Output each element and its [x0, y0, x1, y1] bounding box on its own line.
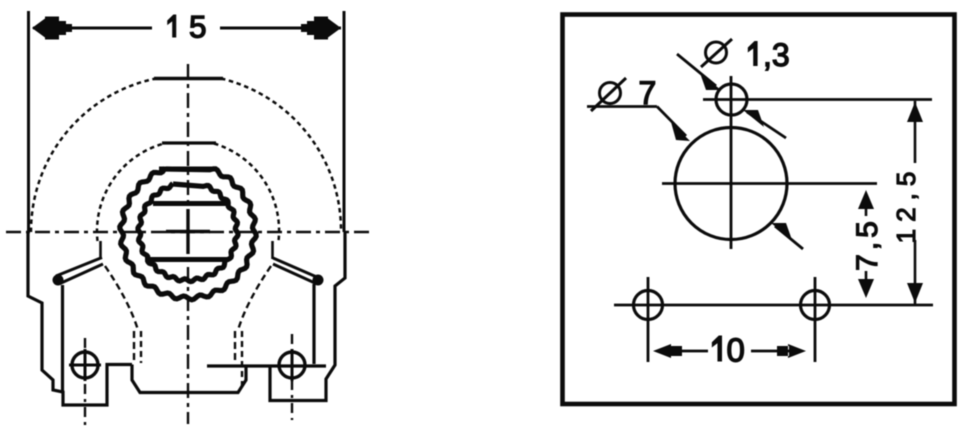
right pin cross vertical [291, 349, 294, 381]
body semicircle dashed left part [31, 79, 156, 233]
dimension text 15 [167, 15, 176, 38]
left ear lower edge [60, 264, 103, 284]
left leg inner contour [133, 331, 135, 363]
left pin cross vertical [84, 349, 87, 381]
dimension line 15 right segment [220, 27, 341, 30]
svg-text:0: 0 [727, 332, 745, 369]
leader dia 7 diagonal [657, 107, 686, 137]
right ear stub [271, 241, 274, 259]
dimension 10 line left [660, 350, 708, 353]
left ear tip [53, 275, 64, 286]
label dia 7 symbol [591, 78, 626, 111]
left ear stub [99, 241, 102, 259]
body outline right side [270, 232, 345, 401]
top pin extension line [703, 98, 932, 101]
dimension 12,5 line top [914, 101, 917, 163]
leader arrow lower [743, 110, 764, 127]
body semicircle flat top [154, 77, 223, 80]
slot top chord [153, 201, 226, 206]
slot bottom chord [145, 257, 229, 262]
inner dashed arc left [97, 144, 164, 242]
left pin cross horizontal [69, 364, 101, 367]
right leg inner contour [234, 331, 236, 363]
bottom pin left circle [634, 291, 663, 320]
dimension 7,5 line bottom [865, 271, 868, 280]
bottom pin right centerline [814, 277, 817, 362]
inner arc flat top [162, 141, 216, 144]
dia 7 opposite arrow [775, 226, 803, 249]
dimension 10 arrow left [653, 344, 682, 358]
inner dashed arc right [214, 144, 279, 242]
rotor hole vertical centerline [730, 76, 733, 249]
dia 7 opposite arrowhead [771, 223, 792, 240]
hub inner circle [138, 184, 238, 282]
right ear upper edge [273, 258, 319, 278]
right leg inner contour b [241, 331, 243, 390]
svg-text:5: 5 [189, 9, 207, 45]
leader dia 1,3 upper [677, 54, 716, 86]
vertical centerline [187, 64, 189, 424]
leader arrow upper [700, 73, 721, 90]
left pin circle [72, 352, 98, 378]
top pin hole [716, 84, 747, 115]
body semicircle dashed right part [221, 79, 341, 233]
body outline left side [28, 232, 132, 405]
dimension 12,5 line bottom [914, 240, 917, 304]
dimension 12,5 arrow down [907, 283, 923, 303]
svg-text:7,5: 7,5 [851, 217, 884, 271]
left leg inner edge [61, 285, 64, 392]
body center block bottom [132, 365, 246, 393]
rotor hole circle [675, 128, 787, 240]
hub outer circle flat top [159, 167, 217, 172]
bottom pin left centerline [647, 277, 650, 362]
extension line left [27, 11, 30, 232]
dimension line 15 left segment [33, 27, 152, 30]
svg-text:12,5: 12,5 [891, 165, 921, 244]
hub center cross horizontal [166, 230, 210, 233]
dimension text 10 [712, 336, 722, 362]
hub outer circle [120, 168, 256, 300]
wiper line right [207, 364, 326, 367]
leader dia 7 arrow [671, 122, 690, 141]
right ear diagonal [238, 266, 271, 330]
dimension 7,5 arrow up [858, 190, 874, 209]
left ear diagonal [105, 266, 138, 330]
hub center cross vertical [186, 209, 189, 254]
right leg inner edge [312, 284, 315, 364]
right ear junction dot [313, 275, 324, 286]
bottom pin right circle [801, 291, 830, 320]
extension line right [343, 11, 346, 232]
label dia 1,3 text [748, 41, 758, 66]
dimension 10 arrow right [777, 344, 806, 358]
bottom pin holes line [614, 304, 933, 307]
dimension 7,5 arrow down [858, 279, 874, 298]
horizontal centerline [6, 231, 374, 233]
dimension 7,5 line top [865, 207, 868, 216]
right pin circle [279, 352, 305, 378]
right pin centerline [291, 334, 293, 420]
left pin centerline [84, 338, 86, 428]
left ear upper edge [56, 258, 102, 277]
arrowhead right [301, 17, 341, 40]
label dia 1,3 symbol [701, 39, 732, 67]
left leg inner contour b [140, 331, 142, 363]
border box [563, 15, 955, 405]
leader dia 1,3 lower [747, 112, 786, 138]
dimension 10 line right [751, 350, 798, 353]
arrowhead left [32, 17, 72, 40]
svg-text:,3: ,3 [763, 37, 790, 73]
dimension 12,5 arrow up [907, 102, 923, 122]
rotor hole horizontal centerline [662, 182, 877, 185]
leader dia 7 underline [587, 105, 657, 108]
right ear lower edge [273, 264, 316, 284]
